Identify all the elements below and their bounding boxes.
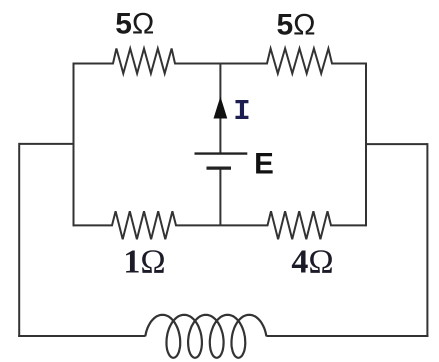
svg-text:5Ω: 5Ω: [276, 8, 315, 41]
wire right outer vertical: [426, 143, 428, 337]
svg-text:5Ω: 5Ω: [115, 8, 154, 41]
svg-text:4Ω: 4Ω: [291, 243, 333, 280]
arrow current direction I: [214, 97, 228, 119]
resistor R1 5ohm top-left: [74, 49, 221, 74]
wire right connector: [366, 143, 427, 145]
resistor R4 4ohm bottom-right: [220, 211, 366, 239]
battery E short plate: [207, 167, 232, 170]
wire middle vertical upper: [219, 64, 221, 154]
wire left connector: [19, 143, 73, 145]
inductor L1 coil: [145, 315, 266, 358]
resistor R3 1ohm bottom-left: [74, 211, 221, 239]
battery E long plate: [195, 152, 248, 154]
wire middle vertical lower: [219, 168, 221, 225]
svg-text:E: E: [254, 148, 274, 181]
wire inner right vertical: [365, 63, 367, 227]
svg-text:1Ω: 1Ω: [123, 243, 165, 280]
svg-text:I: I: [233, 95, 250, 128]
resistor R2 5ohm top-right: [220, 49, 366, 74]
wire inner left vertical: [73, 63, 75, 227]
wire bottom left segment: [18, 335, 145, 337]
wire bottom right segment: [266, 335, 428, 337]
wire left outer vertical: [18, 143, 20, 337]
